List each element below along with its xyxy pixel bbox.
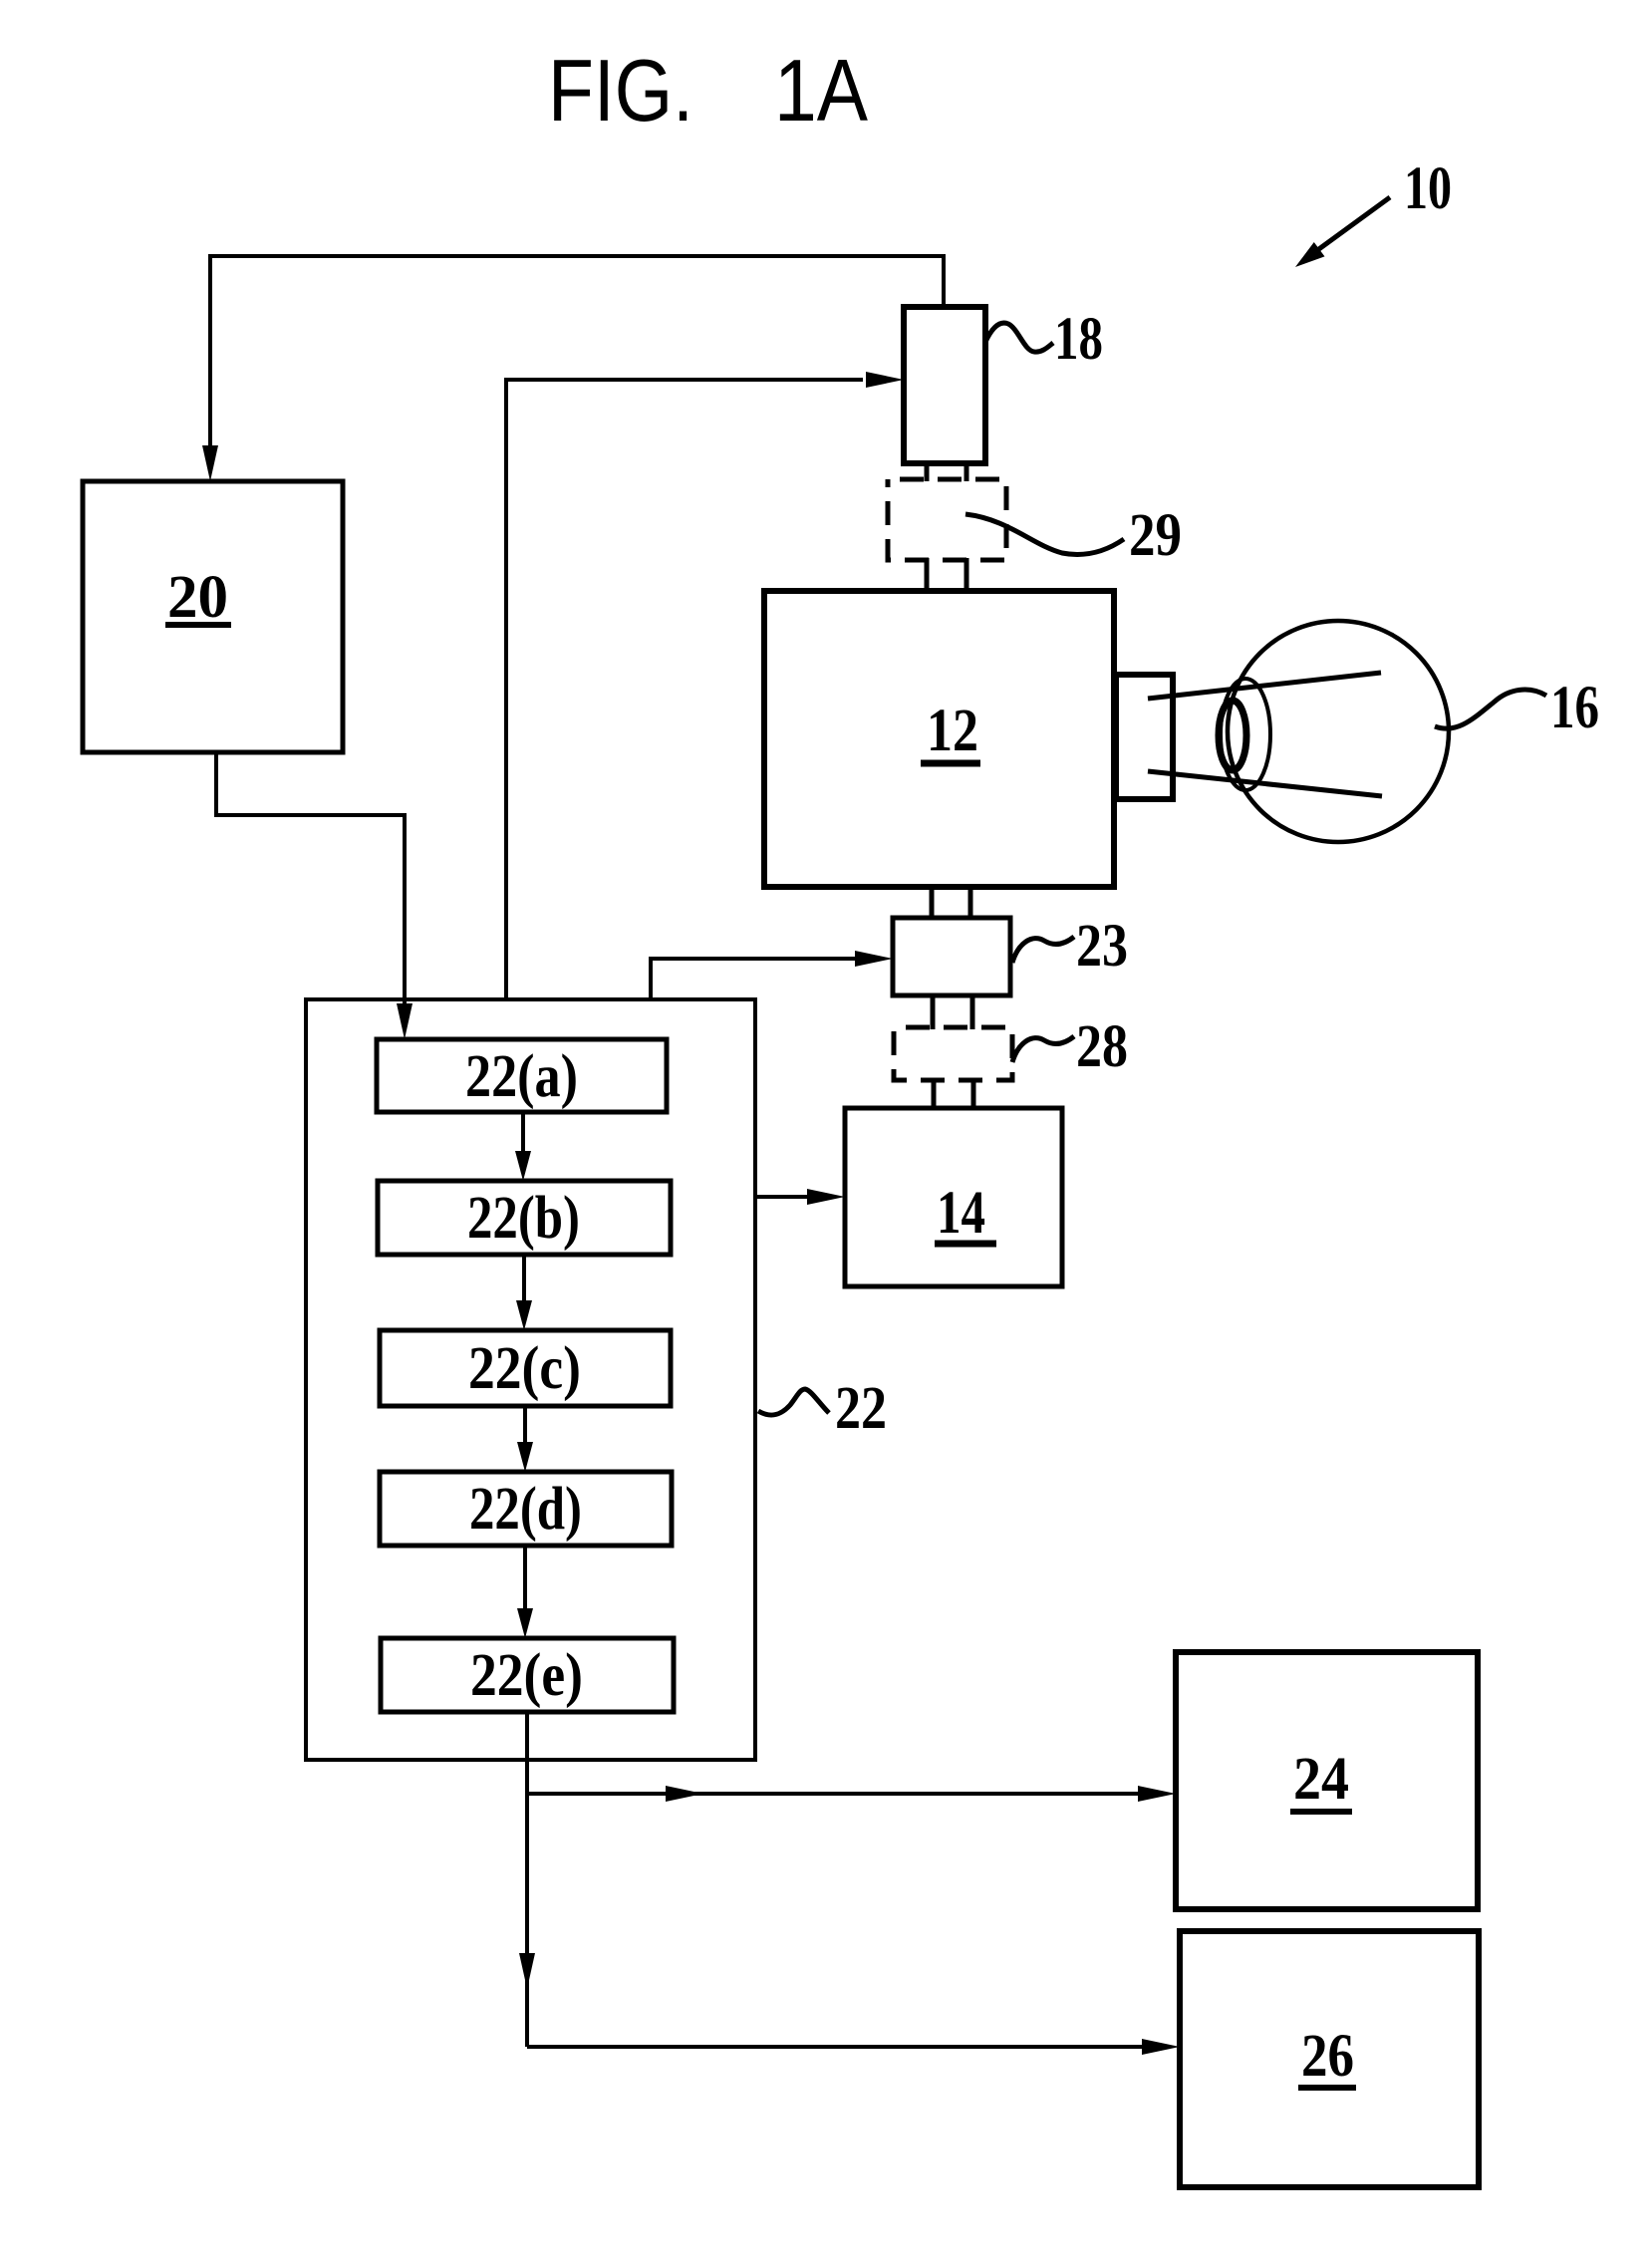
eye 16: iris	[1221, 679, 1270, 790]
eye 16: pupil	[1219, 701, 1246, 770]
wire from node A (508,381) to box 18 left	[506, 380, 863, 999]
arrowhead into box 14	[807, 1189, 845, 1205]
svg-text:22(e): 22(e)	[470, 1642, 583, 1709]
wire 22(e) down through box 22 bottom	[525, 1712, 529, 2047]
box 22(b)	[378, 1181, 671, 1255]
wire 22(a) to 22(b)	[521, 1112, 525, 1155]
box 26	[1180, 1931, 1479, 2187]
svg-text:23: 23	[1076, 913, 1128, 980]
leader squiggle 18	[985, 323, 1053, 352]
wire 22(b) to 22(c)	[522, 1255, 526, 1304]
arrowhead into box 24	[1138, 1786, 1176, 1802]
leader squiggle 23	[1012, 937, 1074, 963]
wire 22(d) to 22(e)	[523, 1546, 527, 1612]
arrowhead into box 26	[1142, 2039, 1180, 2055]
box 22(c)	[380, 1330, 671, 1406]
svg-text:10: 10	[1404, 155, 1452, 222]
box 20	[83, 481, 343, 752]
box 12	[764, 591, 1114, 887]
wire junction to box 24	[527, 1792, 1140, 1796]
box 22 (outer)	[306, 999, 755, 1760]
mid arrowhead right	[666, 1786, 703, 1802]
wire box 22 top to box 23	[651, 959, 855, 999]
svg-text:20: 20	[167, 564, 228, 631]
box 28 (dashed)	[894, 1027, 1012, 1080]
arrowhead into box 20	[202, 445, 218, 481]
arrowhead into box 18	[866, 372, 904, 388]
arrow 10	[1305, 197, 1390, 259]
arrowhead into box 22(a)	[397, 1003, 413, 1039]
svg-text:22(c): 22(c)	[468, 1335, 581, 1402]
box 22(a)	[377, 1039, 667, 1112]
wire bottom to box 26	[527, 2045, 1144, 2049]
wire stubs box 12 to box 23	[932, 885, 970, 920]
box 22(e)	[381, 1638, 674, 1712]
box 22(d)	[380, 1472, 672, 1546]
svg-text:22(d): 22(d)	[469, 1476, 582, 1543]
eye 16: lower ray	[1148, 771, 1382, 796]
svg-text:18: 18	[1054, 306, 1103, 373]
leader squiggle 22	[758, 1389, 829, 1415]
wire box 22 right to box 14	[755, 1195, 809, 1199]
wire top: box 18 top to box 20 top	[210, 256, 944, 458]
wire box 20 bottom to box 22(a)	[216, 752, 405, 1008]
mid arrowhead down	[519, 1953, 535, 1989]
svg-text:22: 22	[835, 1375, 887, 1442]
box 18	[904, 307, 985, 463]
box 24	[1176, 1652, 1478, 1909]
leader squiggle 28	[1012, 1036, 1074, 1062]
wire stubs box 28 to box 14	[934, 1078, 973, 1110]
box 23	[893, 918, 1010, 995]
box 29 (dashed)	[888, 479, 1006, 560]
wire 22(c) to 22(d)	[523, 1406, 527, 1446]
eye 16: upper ray	[1148, 673, 1381, 699]
svg-text:22(a): 22(a)	[465, 1043, 578, 1110]
arrowhead into box 23	[855, 951, 893, 967]
svg-text:29: 29	[1129, 502, 1182, 569]
eye 16: eyeball	[1228, 621, 1449, 842]
box 14	[845, 1108, 1062, 1286]
title FIG. 1A	[548, 41, 868, 140]
wire stubs box 18 to box 29	[927, 461, 966, 481]
svg-text:26: 26	[1301, 2023, 1354, 2090]
svg-text:14: 14	[937, 1180, 985, 1247]
wire stubs box 23 to box 28	[933, 993, 972, 1029]
svg-text:1A: 1A	[774, 41, 868, 140]
svg-text:16: 16	[1550, 675, 1599, 741]
lens mount on box 12	[1116, 675, 1173, 799]
svg-text:28: 28	[1076, 1013, 1128, 1080]
leader 29	[965, 514, 1124, 555]
svg-text:24: 24	[1293, 1746, 1349, 1813]
svg-text:12: 12	[927, 698, 978, 764]
leader squiggle 16	[1435, 690, 1546, 728]
wire stubs box 29 to box 12	[927, 558, 966, 593]
svg-text:22(b): 22(b)	[467, 1185, 580, 1252]
svg-text:FIG.: FIG.	[548, 41, 693, 140]
